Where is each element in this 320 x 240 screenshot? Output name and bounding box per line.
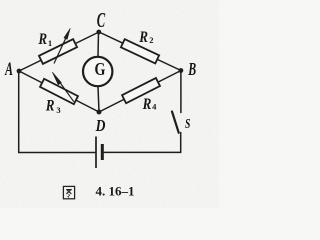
wire switch to bottom wire	[180, 133, 182, 153]
caption glyph 图 (drawn)	[63, 186, 74, 198]
resistor R3 arrow	[56, 77, 74, 102]
resistor R4 box	[122, 78, 160, 103]
wire bottom left to battery	[19, 152, 96, 154]
svg-text:4. 16–1: 4. 16–1	[96, 183, 135, 198]
wire D-B	[99, 71, 181, 113]
svg-text:3: 3	[56, 105, 60, 115]
resistor R3 box	[40, 79, 78, 104]
svg-text:R: R	[142, 96, 152, 113]
node B dot	[179, 68, 184, 73]
wire C to galvanometer	[97, 32, 100, 57]
svg-text:S: S	[185, 116, 191, 131]
switch S blade	[172, 112, 179, 133]
node D dot	[97, 110, 102, 115]
wire A down to battery loop	[18, 71, 20, 153]
wire A-C	[19, 32, 99, 71]
node C dot	[96, 30, 101, 35]
svg-text:2: 2	[149, 35, 153, 45]
wire galvanometer to D	[98, 87, 99, 113]
svg-text:4: 4	[152, 101, 157, 111]
resistor R2 box	[121, 39, 159, 63]
svg-text:1: 1	[48, 38, 52, 48]
svg-text:R: R	[45, 97, 55, 114]
svg-text:A: A	[4, 59, 13, 79]
battery short thick plate (-)	[101, 144, 104, 160]
svg-text:D: D	[95, 117, 106, 136]
svg-text:R: R	[38, 31, 48, 48]
svg-text:B: B	[187, 60, 196, 80]
wire battery to bottom right corner	[104, 151, 181, 153]
svg-text:R: R	[138, 29, 148, 46]
svg-text:C: C	[97, 9, 106, 32]
paper background	[0, 0, 219, 208]
wire B down to switch	[180, 71, 182, 113]
wire A-D	[19, 71, 99, 112]
wire C-B	[99, 32, 181, 71]
resistor R1 box	[39, 39, 77, 64]
node A dot	[17, 69, 22, 74]
resistor R1 arrow	[54, 36, 67, 64]
battery long plate (+)	[95, 137, 97, 169]
galvanometer G circle	[83, 57, 112, 86]
svg-text:G: G	[95, 61, 106, 80]
